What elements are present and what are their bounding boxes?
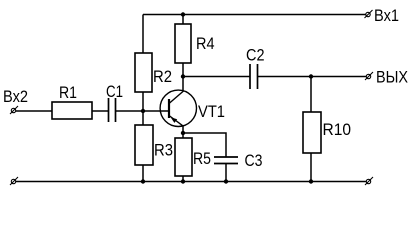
capacitor C2	[246, 46, 265, 90]
svg-text:R2: R2	[153, 67, 172, 86]
capacitor C1	[106, 82, 123, 122]
wire R10 bottom	[310, 153, 312, 182]
resistor R10	[303, 112, 351, 153]
wire R4 top	[182, 15, 184, 25]
svg-text:C3: C3	[245, 151, 263, 170]
resistor R4	[175, 24, 215, 63]
svg-text:Вх1: Вх1	[374, 6, 399, 25]
terminal Вх1	[365, 6, 400, 25]
wire R2 bottom to base node	[142, 92, 144, 111]
capacitor C3	[214, 151, 263, 170]
svg-text:C2: C2	[246, 46, 265, 65]
svg-text:VT1: VT1	[198, 102, 225, 121]
node base junction	[141, 109, 145, 113]
svg-text:R3: R3	[154, 141, 173, 160]
svg-text:R1: R1	[59, 83, 77, 102]
terminal ВЫХ	[365, 68, 408, 87]
node R10 top junction	[309, 74, 313, 78]
node R10 bottom junction	[309, 179, 313, 183]
wire R1 to C1	[92, 110, 109, 112]
node collector junction	[181, 74, 185, 78]
wire Вх2 to R1	[16, 110, 52, 112]
terminal Вх2	[3, 87, 28, 114]
svg-text:R4: R4	[196, 34, 215, 53]
resistor R2	[135, 53, 172, 92]
node R4 top junction	[181, 12, 185, 16]
wire R4 bottom to collector	[182, 63, 184, 91]
resistor R1	[52, 83, 92, 119]
node R3 bottom junction	[141, 179, 145, 183]
wire R5 bottom	[182, 176, 184, 182]
wire top rail	[143, 14, 366, 16]
wire R3 top	[142, 111, 144, 125]
node R5 bottom junction	[181, 179, 185, 183]
wire emitter to C3 corner	[183, 133, 226, 157]
svg-text:ВЫХ: ВЫХ	[376, 68, 408, 87]
terminal bottom right	[365, 177, 373, 185]
wire C2 to ВЫХ terminal	[258, 76, 367, 78]
wire C3 bottom	[225, 164, 227, 182]
wire R2 top drop	[142, 15, 144, 54]
node C3 bottom junction	[224, 179, 228, 183]
svg-text:R10: R10	[323, 120, 352, 139]
svg-text:Вх2: Вх2	[3, 87, 28, 106]
wire collector to C2	[183, 76, 250, 78]
node emitter junction	[181, 131, 185, 135]
wire R3 bottom	[142, 165, 144, 182]
resistor R3	[135, 125, 173, 165]
wire R5 top	[182, 133, 184, 138]
wire R10 top	[310, 77, 312, 113]
terminal bottom left	[10, 177, 18, 185]
transistor VT1	[160, 90, 225, 126]
wire base	[116, 110, 170, 112]
wire bottom rail	[16, 181, 366, 183]
svg-text:C1: C1	[106, 82, 123, 101]
svg-text:R5: R5	[193, 149, 211, 168]
wire emitter down	[182, 126, 184, 133]
resistor R5	[175, 138, 211, 176]
